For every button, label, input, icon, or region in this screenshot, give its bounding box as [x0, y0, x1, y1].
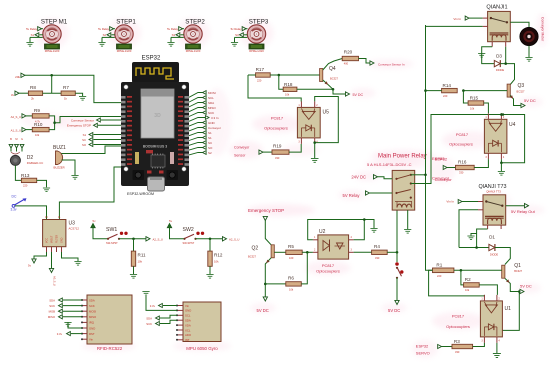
- svg-text:U1: U1: [505, 306, 512, 312]
- svg-text:220: 220: [437, 274, 442, 278]
- svg-text:3v: 3v: [11, 93, 15, 97]
- svg-text:R18: R18: [284, 82, 293, 87]
- svg-text:5V Relay Out: 5V Relay Out: [511, 209, 536, 214]
- svg-text:SCK: SCK: [208, 111, 214, 115]
- svg-text:R5: R5: [288, 244, 294, 249]
- svg-text:SCK: SCK: [146, 322, 152, 326]
- svg-text:ESP32: ESP32: [432, 156, 445, 161]
- svg-text:R9: R9: [34, 108, 40, 113]
- svg-text:R14: R14: [443, 83, 452, 88]
- svg-text:G: G: [21, 137, 23, 141]
- svg-text:Emergency STOP: Emergency STOP: [67, 124, 91, 128]
- svg-text:R19: R19: [273, 143, 282, 148]
- svg-text:S1: S1: [31, 33, 35, 37]
- svg-text:R6: R6: [288, 276, 294, 281]
- svg-text:Conveyor Sensor: Conveyor Sensor: [71, 118, 94, 122]
- svg-text:3.3 In: 3.3 In: [211, 116, 219, 120]
- svg-text:D3: D3: [496, 54, 502, 59]
- svg-text:S1: S1: [208, 136, 212, 140]
- svg-text:10k: 10k: [138, 259, 143, 263]
- svg-text:400: 400: [344, 62, 349, 66]
- svg-text:Sensor: Sensor: [234, 154, 246, 158]
- svg-text:330: 330: [275, 156, 280, 160]
- svg-text:5v Relay: 5v Relay: [231, 27, 242, 31]
- svg-text:5V DC: 5V DC: [257, 308, 269, 313]
- svg-text:R4: R4: [374, 244, 380, 249]
- svg-text:INT: INT: [185, 338, 190, 342]
- svg-text:Conveyor: Conveyor: [208, 126, 221, 130]
- svg-text:BC327: BC327: [248, 254, 256, 258]
- svg-text:BC327: BC327: [517, 90, 525, 94]
- svg-text:SDA: SDA: [208, 101, 214, 105]
- svg-text:330: 330: [375, 256, 380, 260]
- svg-text:PC817: PC817: [456, 132, 469, 137]
- svg-text:ESP32-WROOM: ESP32-WROOM: [127, 192, 154, 196]
- svg-text:R8: R8: [30, 85, 36, 90]
- svg-text:5V DC: 5V DC: [353, 93, 364, 97]
- svg-text:330: 330: [455, 350, 460, 354]
- svg-text:R3: R3: [454, 339, 460, 344]
- svg-text:Optocouplers: Optocouplers: [264, 126, 288, 131]
- svg-text:A2_S_U: A2_S_U: [229, 237, 239, 241]
- svg-text:XDA: XDA: [185, 323, 191, 327]
- svg-text:RPMa-1/220: RPMa-1/220: [117, 49, 132, 53]
- svg-text:ESP32: ESP32: [142, 56, 161, 62]
- svg-text:A2_S_U: A2_S_U: [11, 115, 21, 119]
- svg-text:Optocouplers: Optocouplers: [316, 269, 340, 274]
- svg-text:S4: S4: [235, 33, 239, 37]
- svg-text:5V DC: 5V DC: [520, 283, 532, 288]
- svg-text:PC817: PC817: [322, 263, 335, 268]
- svg-text:SDA: SDA: [146, 317, 152, 321]
- svg-text:S2: S2: [103, 33, 107, 37]
- svg-text:U5: U5: [323, 110, 330, 116]
- svg-text:R10: R10: [34, 122, 43, 127]
- svg-text:5v Relay: 5v Relay: [26, 27, 37, 31]
- svg-text:SCK: SCK: [89, 304, 95, 308]
- svg-text:330: 330: [459, 171, 464, 175]
- svg-text:DC: DC: [12, 195, 17, 199]
- svg-text:10k: 10k: [465, 288, 470, 292]
- svg-text:MOSI: MOSI: [208, 91, 216, 95]
- svg-text:DIODE: DIODE: [490, 252, 498, 256]
- svg-text:MISO: MISO: [48, 315, 56, 319]
- svg-text:3.3v: 3.3v: [11, 208, 17, 212]
- svg-text:5V Relay: 5V Relay: [343, 193, 361, 198]
- svg-text:SCK: SCK: [49, 304, 55, 308]
- svg-text:S1: S1: [208, 131, 212, 135]
- svg-text:XCL: XCL: [185, 328, 191, 332]
- svg-text:VIOUT: VIOUT: [51, 235, 54, 243]
- svg-text:Vin: Vin: [185, 304, 189, 308]
- svg-text:A0_S_U: A0_S_U: [53, 276, 57, 286]
- svg-text:R2: R2: [465, 277, 471, 282]
- svg-text:QIANJI T73: QIANJI T73: [486, 190, 501, 194]
- svg-text:10k: 10k: [214, 259, 219, 263]
- svg-text:R15: R15: [470, 96, 479, 101]
- svg-text:R1: R1: [436, 262, 442, 267]
- svg-text:IRQ: IRQ: [89, 321, 95, 325]
- svg-text:SDA: SDA: [89, 298, 95, 302]
- svg-text:220: 220: [23, 183, 28, 187]
- svg-text:Conveyor: Conveyor: [234, 146, 250, 150]
- svg-text:GND: GND: [89, 326, 95, 330]
- svg-text:BUZZER: BUZZER: [54, 166, 65, 170]
- svg-text:Q3: Q3: [518, 83, 525, 89]
- svg-text:MOSI: MOSI: [89, 310, 96, 314]
- svg-text:SW-SPST: SW-SPST: [183, 241, 195, 245]
- svg-text:S3: S3: [172, 33, 176, 37]
- svg-text:R11: R11: [138, 253, 147, 258]
- svg-text:SCL: SCL: [208, 96, 214, 100]
- svg-text:R17: R17: [256, 67, 265, 72]
- svg-text:SDA: SDA: [49, 298, 55, 302]
- svg-text:BOOSIM EUS 3: BOOSIM EUS 3: [143, 145, 167, 149]
- svg-text:MISO: MISO: [89, 315, 97, 319]
- svg-text:BUZ1: BUZ1: [53, 145, 66, 151]
- svg-text:SCL: SCL: [185, 314, 191, 318]
- svg-text:A2_S_U: A2_S_U: [153, 237, 163, 241]
- svg-text:MISO: MISO: [208, 106, 216, 110]
- svg-text:3.3v: 3.3v: [57, 332, 63, 336]
- svg-text:U2: U2: [319, 229, 326, 235]
- svg-text:10k: 10k: [470, 106, 475, 110]
- svg-text:U4: U4: [509, 122, 516, 128]
- svg-text:Optocouplers: Optocouplers: [449, 141, 473, 146]
- svg-text:Q2: Q2: [252, 246, 259, 252]
- svg-text:FILTER: FILTER: [56, 235, 59, 243]
- svg-text:3.3v: 3.3v: [150, 304, 156, 308]
- svg-text:S1: S1: [83, 133, 87, 137]
- svg-text:Conveyor Motor: Conveyor Motor: [541, 17, 545, 42]
- svg-text:Q1: Q1: [514, 263, 521, 269]
- svg-text:Vin: Vin: [89, 338, 93, 342]
- svg-text:SERVO: SERVO: [416, 351, 430, 356]
- svg-text:MPU 6050 Gyro: MPU 6050 Gyro: [186, 346, 218, 351]
- svg-text:Q4: Q4: [329, 66, 336, 72]
- svg-text:24V DC: 24V DC: [351, 175, 366, 180]
- svg-text:ESP32: ESP32: [416, 343, 429, 348]
- svg-text:10k: 10k: [35, 133, 40, 137]
- svg-text:DIODE: DIODE: [496, 68, 504, 72]
- svg-text:M: M: [15, 137, 17, 141]
- svg-text:SW-SPST: SW-SPST: [106, 241, 118, 245]
- svg-text:SDA: SDA: [185, 319, 191, 323]
- svg-text:GND: GND: [208, 121, 216, 125]
- svg-text:S2: S2: [208, 151, 212, 155]
- svg-text:ADO: ADO: [185, 333, 192, 337]
- svg-text:R20: R20: [344, 49, 353, 54]
- svg-text:5v Relay: 5v Relay: [167, 27, 178, 31]
- svg-text:R7: R7: [63, 85, 69, 90]
- svg-text:Optocouplers: Optocouplers: [446, 324, 470, 329]
- svg-text:5v Relay: 5v Relay: [98, 27, 109, 31]
- svg-text:Conveyor Sensor In: Conveyor Sensor In: [378, 62, 405, 66]
- svg-text:RFID-RC522: RFID-RC522: [97, 346, 123, 351]
- svg-text:R16: R16: [458, 160, 467, 165]
- svg-text:Conveyor: Conveyor: [432, 176, 450, 181]
- svg-text:PC817: PC817: [452, 314, 465, 319]
- svg-text:SW2: SW2: [183, 227, 194, 233]
- svg-text:SO: SO: [208, 146, 213, 150]
- svg-text:R13: R13: [21, 173, 30, 178]
- svg-text:RGBLED-CC: RGBLED-CC: [27, 161, 43, 165]
- svg-text:RPMa-1/220: RPMa-1/220: [186, 49, 201, 53]
- svg-text:RST: RST: [89, 332, 95, 336]
- svg-text:100: 100: [289, 256, 294, 260]
- svg-text:Vin In: Vin In: [453, 17, 461, 21]
- svg-text:R12: R12: [214, 253, 223, 258]
- svg-text:SW1: SW1: [106, 227, 117, 233]
- svg-text:20k: 20k: [15, 75, 20, 79]
- svg-text:3D: 3D: [154, 113, 161, 119]
- svg-text:MOB: MOB: [49, 310, 56, 314]
- svg-text:GND: GND: [61, 237, 64, 243]
- svg-text:5V DC: 5V DC: [524, 98, 536, 103]
- svg-text:VCC: VCC: [46, 238, 49, 243]
- svg-text:10k: 10k: [289, 288, 294, 292]
- svg-text:5V DC: 5V DC: [388, 308, 400, 313]
- svg-text:B: B: [10, 137, 12, 141]
- svg-text:220: 220: [257, 79, 262, 83]
- svg-text:Vin In: Vin In: [446, 200, 454, 204]
- svg-text:10k: 10k: [285, 93, 290, 97]
- svg-text:RPMa-1/220: RPMa-1/220: [249, 49, 264, 53]
- svg-text:A1_S_U: A1_S_U: [11, 129, 21, 133]
- svg-text:D1: D1: [489, 235, 495, 240]
- svg-text:GND: GND: [185, 309, 191, 313]
- svg-text:SC: SC: [82, 138, 86, 142]
- svg-text:RPMa-1/220: RPMa-1/220: [45, 49, 60, 53]
- svg-text:BC327: BC327: [514, 269, 522, 273]
- svg-text:PC817: PC817: [271, 116, 284, 121]
- svg-text:220: 220: [443, 94, 448, 98]
- svg-text:ACS712: ACS712: [69, 226, 80, 230]
- svg-text:5 A HLS-14F3L-DC5V -C: 5 A HLS-14F3L-DC5V -C: [367, 162, 412, 167]
- svg-text:BC327: BC327: [330, 77, 338, 81]
- svg-text:Emergency STOP: Emergency STOP: [248, 208, 284, 213]
- svg-text:Main Power Relay: Main Power Relay: [378, 154, 427, 160]
